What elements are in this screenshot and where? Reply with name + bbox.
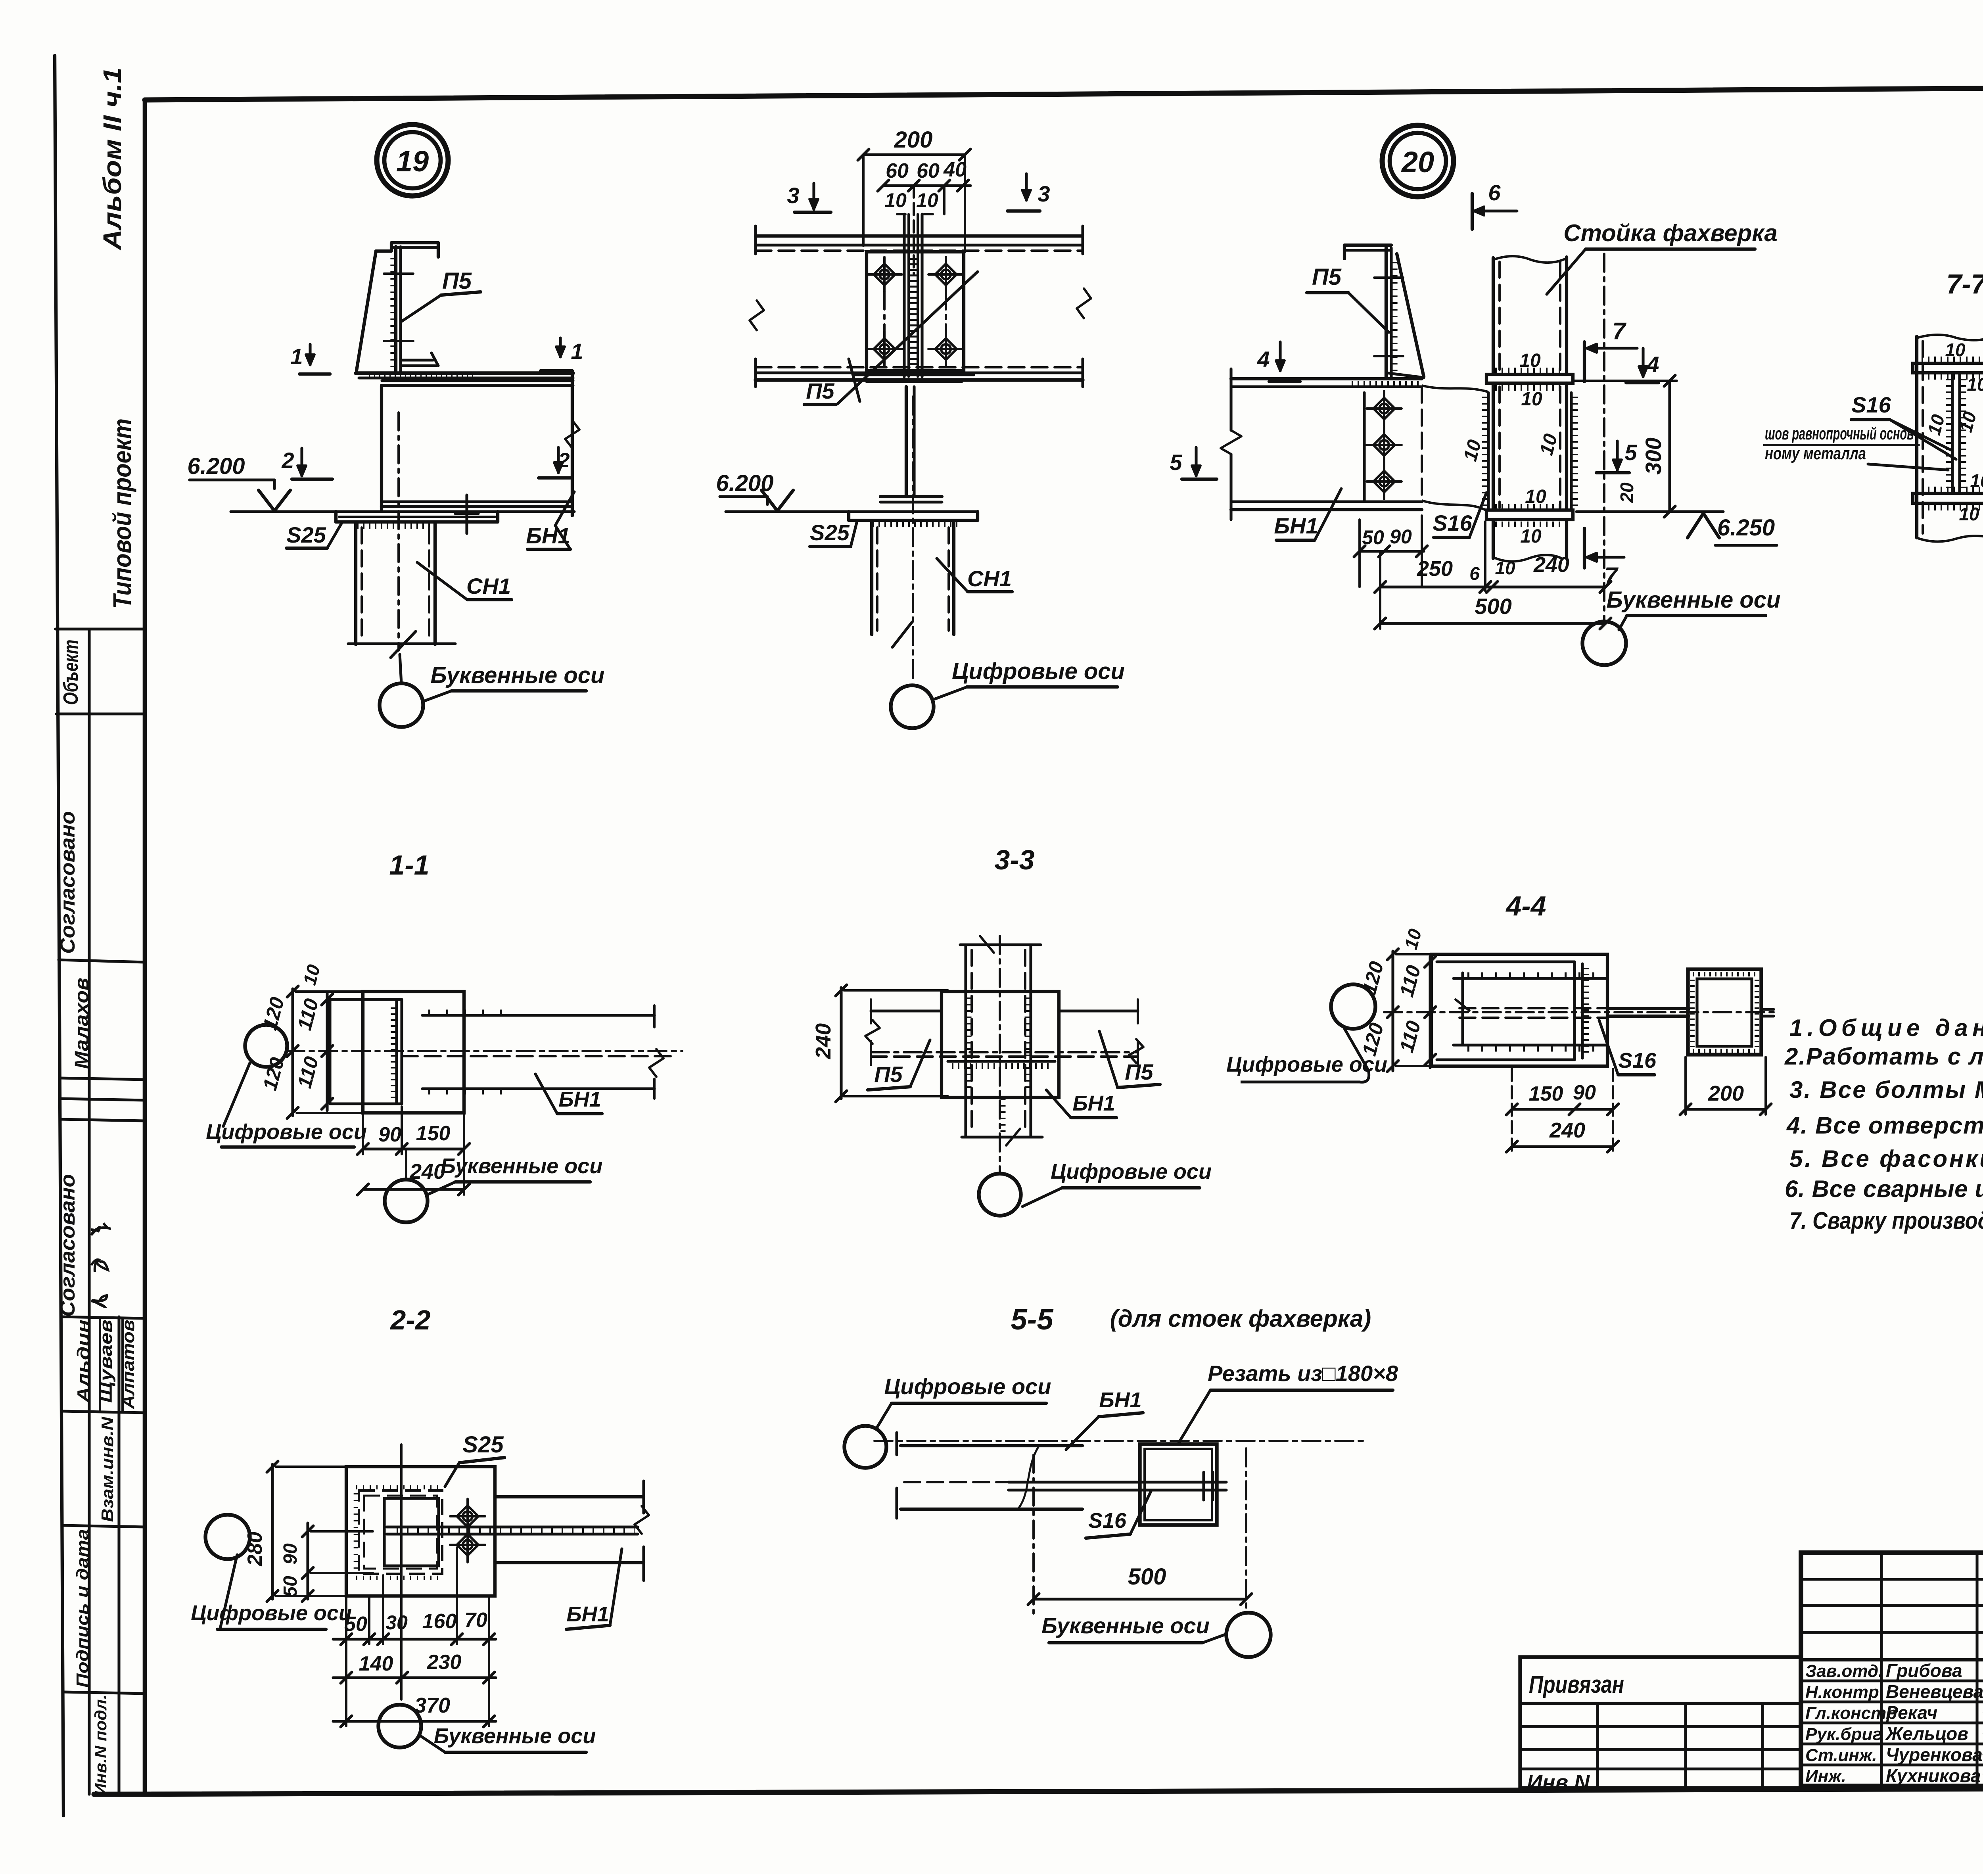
svg-text:Чуренкова: Чуренкова bbox=[1886, 1744, 1983, 1765]
svg-text:250: 250 bbox=[1417, 557, 1453, 581]
svg-text:Привязан: Привязан bbox=[1529, 1671, 1624, 1698]
stem 7-7 bbox=[1951, 373, 1954, 493]
channel P5 plan 4-4 bbox=[1437, 960, 1575, 963]
svg-text:П5: П5 bbox=[442, 268, 472, 294]
svg-text:40: 40 bbox=[943, 158, 967, 181]
svg-text:БН1: БН1 bbox=[1099, 1388, 1141, 1412]
dim 300 bbox=[1573, 380, 1677, 382]
svg-text:S16: S16 bbox=[1851, 392, 1891, 417]
svg-text:Типовой проект: Типовой проект bbox=[108, 418, 136, 609]
svg-text:Рук.бриг: Рук.бриг bbox=[1805, 1724, 1882, 1744]
svg-text:160: 160 bbox=[422, 1610, 457, 1633]
svg-text:2-2: 2-2 bbox=[389, 1304, 430, 1335]
svg-text:Взам.инв.N: Взам.инв.N bbox=[98, 1416, 117, 1522]
title block outer bbox=[1801, 1553, 1983, 1786]
svg-text:7-7: 7-7 bbox=[1946, 269, 1983, 299]
svg-text:140: 140 bbox=[359, 1652, 393, 1675]
svg-text:Буквенные оси: Буквенные оси bbox=[434, 1724, 596, 1748]
svg-text:Объект: Объект bbox=[59, 640, 82, 705]
svg-text:1-1: 1-1 bbox=[389, 850, 429, 880]
section 4 markers bbox=[1279, 342, 1281, 371]
centreline 4-4 bbox=[1384, 1011, 1775, 1013]
S16 band 2-2 bbox=[387, 1525, 638, 1528]
svg-text:П5: П5 bbox=[874, 1062, 903, 1087]
svg-text:3: 3 bbox=[787, 183, 799, 208]
svg-text:1: 1 bbox=[571, 339, 583, 364]
post lower stub bbox=[1492, 520, 1495, 558]
svg-text:Цифровые оси: Цифровые оси bbox=[884, 1374, 1051, 1399]
bolts front view bbox=[867, 257, 902, 292]
svg-text:Инв N: Инв N bbox=[1527, 1770, 1590, 1794]
svg-text:(для стоек фахверка): (для стоек фахверка) bbox=[1110, 1305, 1371, 1332]
beam BN1 body bbox=[380, 386, 383, 510]
channel post P5 outline bbox=[357, 251, 376, 370]
svg-text:20: 20 bbox=[1617, 482, 1637, 503]
plate 1-1 bbox=[363, 992, 464, 1113]
svg-text:БН1: БН1 bbox=[566, 1602, 609, 1626]
beam bottom flange bbox=[756, 366, 1083, 368]
svg-text:Щуваев: Щуваев bbox=[96, 1320, 116, 1403]
svg-text:7: 7 bbox=[1612, 318, 1626, 344]
beam 5-5 bbox=[901, 1444, 1082, 1447]
privyazan box bbox=[1520, 1657, 1801, 1788]
svg-text:500: 500 bbox=[1128, 1564, 1166, 1590]
svg-text:10: 10 bbox=[1520, 526, 1542, 547]
axis circle node19 bbox=[400, 654, 401, 684]
section marker 1 left bbox=[309, 344, 311, 365]
svg-text:S25: S25 bbox=[286, 522, 326, 547]
svg-text:Рекач: Рекач bbox=[1886, 1702, 1937, 1723]
svg-text:БН1: БН1 bbox=[526, 523, 570, 548]
svg-text:БН1: БН1 bbox=[558, 1088, 601, 1111]
signature table horizontals bbox=[1801, 1578, 1983, 1581]
section 7 bottom bbox=[1583, 528, 1586, 568]
bolts 2-2 bbox=[450, 1499, 485, 1534]
svg-text:П5: П5 bbox=[1312, 264, 1342, 290]
channel P5 edge 1-1 bbox=[328, 999, 331, 1104]
svg-text:5: 5 bbox=[1170, 450, 1182, 475]
svg-text:10: 10 bbox=[916, 189, 938, 211]
hidden plate lines 4-4 bbox=[1459, 1007, 1607, 1009]
svg-text:Малахов: Малахов bbox=[71, 978, 92, 1069]
svg-text:90: 90 bbox=[1573, 1081, 1596, 1104]
dims left 1-1 bbox=[291, 989, 294, 1116]
svg-text:Инв.N подл.: Инв.N подл. bbox=[91, 1695, 110, 1796]
base plate S25 bbox=[334, 512, 338, 522]
dim 240 3-3 bbox=[840, 988, 842, 1099]
axis centre line node20 bbox=[1603, 254, 1605, 622]
beam 2-2 bbox=[495, 1495, 644, 1498]
svg-text:3: 3 bbox=[1038, 181, 1050, 206]
svg-text:S25: S25 bbox=[462, 1432, 504, 1458]
svg-text:Цифровые оси: Цифровые оси bbox=[191, 1601, 352, 1625]
inner solid plate 2-2 bbox=[384, 1498, 439, 1566]
svg-text:10: 10 bbox=[1945, 340, 1966, 360]
svg-text:БН1: БН1 bbox=[1072, 1091, 1115, 1115]
svg-text:3-3: 3-3 bbox=[994, 844, 1034, 875]
section 5 marker left bbox=[1195, 447, 1197, 476]
svg-text:Жельцов: Жельцов bbox=[1885, 1723, 1968, 1744]
svg-text:200: 200 bbox=[1708, 1082, 1744, 1105]
svg-text:6.250: 6.250 bbox=[1717, 515, 1775, 541]
dims left 2-2 bbox=[271, 1464, 274, 1599]
svg-text:Подпись и дата: Подпись и дата bbox=[73, 1529, 92, 1688]
beam flange lines 1-1 bbox=[422, 1014, 654, 1017]
svg-text:Буквенные оси: Буквенные оси bbox=[1041, 1613, 1210, 1638]
plate 3-3 bbox=[942, 992, 1059, 1097]
channel P5 on beam node20 bbox=[1343, 245, 1346, 259]
svg-text:2: 2 bbox=[281, 448, 294, 473]
svg-text:Веневцева: Веневцева bbox=[1886, 1681, 1983, 1702]
svg-text:200: 200 bbox=[894, 127, 933, 153]
column tube front bbox=[870, 522, 873, 635]
svg-text:Грибова: Грибова bbox=[1886, 1660, 1962, 1681]
section marker 1 right bbox=[559, 338, 562, 357]
centre line front bbox=[912, 397, 914, 679]
svg-text:Ст.инж.: Ст.инж. bbox=[1805, 1746, 1877, 1765]
gusset plate bbox=[867, 252, 964, 371]
svg-text:19: 19 bbox=[396, 145, 429, 178]
beam BN1 top plate bbox=[356, 371, 573, 375]
svg-text:90: 90 bbox=[1390, 526, 1412, 548]
svg-text:Цифровые оси: Цифровые оси bbox=[1051, 1160, 1212, 1184]
svg-text:П5: П5 bbox=[806, 378, 834, 403]
svg-text:7. Сварку производить электрод: 7. Сварку производить электродами Э46А п… bbox=[1789, 1207, 1983, 1234]
svg-text:300: 300 bbox=[1641, 437, 1666, 474]
svg-text:Альбом II ч.1: Альбом II ч.1 bbox=[98, 67, 127, 251]
svg-text:90: 90 bbox=[378, 1123, 401, 1146]
svg-text:4. Все отверстия Ф 23: 4. Все отверстия Ф 23 bbox=[1786, 1112, 1983, 1139]
svg-text:Зав.отд.: Зав.отд. bbox=[1805, 1661, 1883, 1681]
svg-text:Инж.: Инж. bbox=[1805, 1767, 1846, 1786]
S16 bar 5-5 bbox=[1009, 1481, 1226, 1483]
S16 bar 4-4 bbox=[1607, 1007, 1689, 1010]
column 7-7 bbox=[1917, 335, 1983, 340]
svg-text:4-4: 4-4 bbox=[1505, 890, 1546, 921]
svg-text:СН1: СН1 bbox=[967, 566, 1012, 591]
column CH1 shaft bbox=[354, 523, 357, 645]
svg-text:6: 6 bbox=[1488, 180, 1501, 205]
svg-text:150: 150 bbox=[416, 1122, 451, 1145]
svg-text:10: 10 bbox=[1525, 486, 1546, 507]
svg-text:Цифровые оси: Цифровые оси bbox=[952, 658, 1125, 684]
beam end gusset bbox=[1363, 393, 1365, 502]
svg-text:S16: S16 bbox=[1618, 1049, 1657, 1072]
frame bottom bbox=[94, 1787, 1983, 1794]
gusset weld strips bbox=[1487, 393, 1490, 510]
plate 4-4 bbox=[1431, 954, 1607, 1066]
svg-text:Цифровые оси: Цифровые оси bbox=[206, 1120, 367, 1144]
fachwerk post upper bbox=[1493, 256, 1567, 263]
upper splice band bbox=[1486, 374, 1573, 383]
section 6 marker bbox=[1471, 194, 1474, 229]
svg-text:Буквенные оси: Буквенные оси bbox=[441, 1154, 603, 1178]
svg-text:2: 2 bbox=[558, 449, 570, 472]
svg-text:6. Все сварные швы hш=6мм: 6. Все сварные швы hш=6мм bbox=[1785, 1176, 1983, 1202]
svg-text:ному металла: ному металла bbox=[1765, 444, 1866, 463]
beam lines 3-3 bbox=[871, 1009, 942, 1012]
axis line 5-5 bbox=[875, 1440, 1368, 1442]
svg-text:150: 150 bbox=[1529, 1082, 1563, 1105]
svg-text:Алпатов: Алпатов bbox=[119, 1320, 138, 1410]
stem plates bbox=[903, 214, 905, 377]
section marker 2 left bbox=[300, 448, 303, 476]
left stamp column lines bbox=[88, 629, 90, 1794]
bands 7-7 bbox=[1913, 363, 1983, 373]
signature table verticals bbox=[1880, 1553, 1883, 1786]
svg-text:Согласовано: Согласовано bbox=[56, 1174, 79, 1317]
ground line bbox=[231, 510, 574, 513]
svg-text:1: 1 bbox=[290, 344, 303, 369]
section marker 2 right bbox=[557, 447, 560, 473]
svg-text:СН1: СН1 bbox=[466, 574, 511, 598]
svg-text:6: 6 bbox=[1469, 563, 1480, 584]
svg-text:БН1: БН1 bbox=[1274, 513, 1318, 538]
svg-text:370: 370 bbox=[414, 1694, 450, 1717]
post mid part bbox=[1492, 383, 1495, 510]
post 3-3 bbox=[964, 945, 967, 1136]
svg-text:Цифровые оси: Цифровые оси bbox=[1226, 1053, 1387, 1076]
svg-text:Буквенные оси: Буквенные оси bbox=[431, 662, 605, 688]
elevation 6.250 bbox=[1576, 510, 1723, 513]
svg-text:10: 10 bbox=[1519, 350, 1541, 371]
svg-text:10: 10 bbox=[1967, 374, 1983, 395]
svg-text:4: 4 bbox=[1646, 352, 1659, 377]
lower splice band bbox=[1486, 510, 1573, 520]
svg-text:Гл.констр: Гл.констр bbox=[1805, 1703, 1897, 1723]
frame top bbox=[145, 84, 1983, 100]
svg-text:6.200: 6.200 bbox=[187, 453, 245, 479]
svg-text:Кухникова: Кухникова bbox=[1886, 1765, 1981, 1786]
svg-text:5-5: 5-5 bbox=[1011, 1303, 1054, 1336]
base plate front bbox=[847, 512, 850, 520]
svg-text:240: 240 bbox=[811, 1023, 835, 1059]
dims left 4-4 bbox=[1391, 951, 1394, 1071]
axis dash 1-1 bbox=[286, 1050, 682, 1052]
svg-text:5. Все фасонки S 10 мм: 5. Все фасонки S 10 мм bbox=[1789, 1145, 1983, 1172]
beam BN1 node20 bbox=[1231, 377, 1422, 380]
svg-text:Буквенные оси: Буквенные оси bbox=[1607, 587, 1781, 613]
svg-text:Согласовано: Согласовано bbox=[56, 811, 79, 954]
svg-text:70: 70 bbox=[464, 1609, 487, 1632]
svg-text:10: 10 bbox=[1970, 470, 1983, 491]
svg-text:10: 10 bbox=[884, 189, 907, 211]
svg-text:Стойка фахверка: Стойка фахверка bbox=[1563, 220, 1777, 246]
centre line node19 bbox=[397, 412, 400, 650]
svg-text:Н.контр: Н.контр bbox=[1805, 1682, 1879, 1702]
frame left bbox=[143, 100, 147, 1794]
svg-text:20: 20 bbox=[1401, 146, 1434, 178]
tube 5-5 bbox=[1140, 1444, 1217, 1525]
svg-text:30: 30 bbox=[385, 1611, 408, 1634]
axis vertical 2-2 bbox=[400, 1444, 403, 1700]
svg-text:240: 240 bbox=[1549, 1118, 1585, 1142]
plate 2-2 bbox=[346, 1467, 495, 1596]
svg-text:50: 50 bbox=[280, 1576, 301, 1597]
svg-text:S16: S16 bbox=[1088, 1509, 1127, 1533]
section 7 top bbox=[1583, 342, 1586, 382]
beam top flange bbox=[756, 234, 1083, 238]
svg-text:230: 230 bbox=[427, 1651, 462, 1674]
node 20 bubble bbox=[1382, 125, 1454, 197]
column head below beam bbox=[855, 373, 974, 376]
link curves beam to post bbox=[1422, 386, 1488, 392]
svg-text:Резать из□180×8: Резать из□180×8 bbox=[1208, 1361, 1398, 1386]
section 3 markers bbox=[812, 183, 815, 209]
svg-text:шов равнопрочный основ-: шов равнопрочный основ- bbox=[1765, 424, 1918, 443]
svg-text:10: 10 bbox=[1959, 504, 1979, 524]
svg-text:Альдин: Альдин bbox=[74, 1320, 93, 1403]
svg-text:4: 4 bbox=[1257, 347, 1270, 372]
svg-text:90: 90 bbox=[280, 1543, 301, 1565]
svg-text:2.Работать с листом КМ-8.: 2.Работать с листом КМ-8. bbox=[1784, 1043, 1983, 1070]
svg-text:500: 500 bbox=[1475, 594, 1511, 619]
node 19 bubble bbox=[377, 125, 448, 196]
svg-text:S25: S25 bbox=[810, 520, 850, 545]
svg-text:10: 10 bbox=[1495, 558, 1515, 578]
svg-text:10: 10 bbox=[1521, 389, 1542, 410]
svg-text:240: 240 bbox=[1533, 553, 1569, 577]
square tube 4-4 bbox=[1688, 969, 1761, 1055]
svg-text:5: 5 bbox=[1624, 440, 1637, 465]
svg-text:П5: П5 bbox=[1125, 1059, 1153, 1084]
tube dashed 2-2 bbox=[359, 1490, 442, 1574]
sheet edge left bbox=[55, 56, 63, 1816]
section 5 marker right bbox=[1616, 441, 1619, 470]
svg-text:S16: S16 bbox=[1433, 510, 1472, 535]
weld strips in plate 3-3 bbox=[967, 997, 972, 1093]
